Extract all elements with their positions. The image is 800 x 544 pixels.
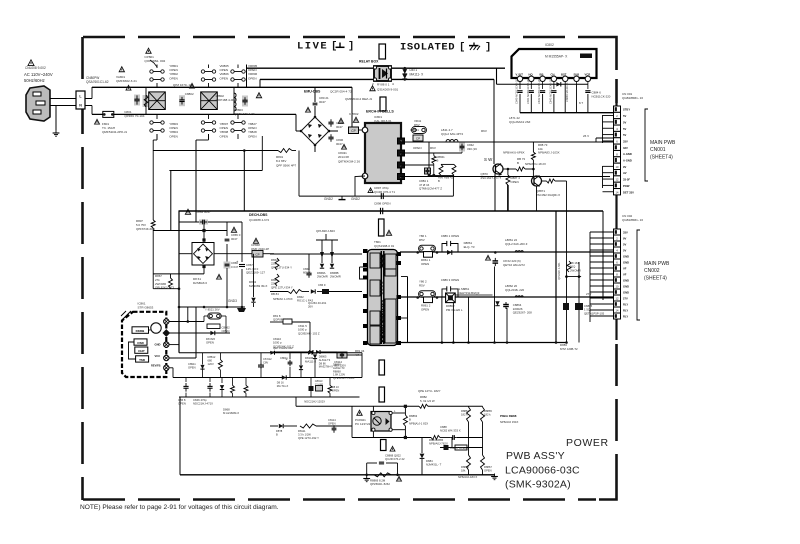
svg-text:GND: GND — [623, 291, 629, 295]
svg-text:D871: D871 — [410, 68, 418, 72]
svg-text:2SC392 RAQR/-X: 2SC392 RAQR/-X — [536, 193, 560, 197]
svg-text:5V: 5V — [623, 133, 626, 137]
svg-text:OPEN: OPEN — [511, 180, 519, 184]
svg-text:QAL 0016 01: QAL 0016 01 — [374, 119, 392, 123]
svg-text:(SHEET4): (SHEET4) — [650, 154, 673, 160]
svg-text:5. 6k 1/2 W: 5. 6k 1/2 W — [420, 399, 435, 403]
svg-text:P8BA RB88: P8BA RB88 — [500, 414, 517, 418]
svg-text:OPEN: OPEN — [248, 76, 257, 80]
svg-text:NOTE) Please refer to page 2-: NOTE) Please refer to page 2-91 for volt… — [80, 504, 279, 511]
svg-text:5V: 5V — [623, 114, 626, 118]
svg-text:C843 NCB13CK2-20: C843 NCB13CK2-20 — [548, 79, 552, 104]
svg-text:R8812: R8812 — [208, 355, 216, 359]
svg-text:AL812-T3: AL812-T3 — [319, 358, 331, 362]
svg-text:C8867 OPEN: C8867 OPEN — [450, 446, 467, 450]
svg-text:C8911: C8911 — [188, 362, 196, 366]
svg-text:2WOMR: 2WOMR — [317, 275, 328, 279]
svg-text:27V: 27V — [586, 292, 591, 296]
svg-text:AV: AV — [623, 171, 627, 175]
svg-text:QQL2018- 220: QQL2018- 220 — [505, 288, 525, 292]
svg-text:33-5F: 33-5F — [623, 178, 630, 182]
svg-text:QET16 HM-2272: QET16 HM-2272 — [503, 263, 525, 267]
svg-text:C842 NCB13CK2-20: C842 NCB13CK2-20 — [537, 79, 541, 104]
svg-text:N: N — [79, 104, 82, 108]
svg-text:CHP: CHP — [138, 349, 144, 353]
svg-text:QGB188M1- 16: QGB188M1- 16 — [622, 96, 643, 100]
svg-text:5V: 5V — [623, 243, 626, 247]
svg-text:IC802: IC802 — [545, 43, 554, 47]
svg-text:RLY: RLY — [623, 309, 628, 313]
svg-text:GND: GND — [623, 279, 629, 283]
svg-text:CP: CP — [255, 253, 259, 257]
svg-text:QC2R 054-4 72: QC2R 054-4 72 — [330, 89, 352, 93]
svg-text:LIVE: LIVE — [297, 41, 328, 53]
svg-text:3.3 k 1/2W: 3.3 k 1/2W — [298, 433, 311, 437]
svg-text:NPB(A)J-1 82X: NPB(A)J-1 82X — [409, 421, 428, 425]
svg-text:C8846 MA111-X: C8846 MA111-X — [565, 82, 569, 102]
svg-text:CP: CP — [351, 129, 355, 133]
svg-text:5V: 5V — [623, 120, 626, 124]
svg-text:RY88 0 1: RY88 0 1 — [377, 83, 390, 87]
svg-text:R8V RB8 42: R8V RB8 42 — [438, 176, 453, 180]
svg-text:CP: CP — [416, 137, 420, 141]
svg-text:D2SBA6 0: D2SBA6 0 — [193, 281, 207, 285]
svg-text:QPF 056K 4P7: QPF 056K 4P7 — [276, 163, 297, 167]
svg-text:OPEN: OPEN — [206, 341, 214, 345]
svg-text:C8 912: C8 912 — [263, 357, 272, 361]
svg-text:2WOMR: 2WOMR — [570, 268, 581, 272]
svg-text:R8868: R8868 — [333, 369, 341, 373]
svg-text:GND: GND — [623, 285, 629, 289]
svg-text:2SC1627 AY/-T: 2SC1627 AY/-T — [481, 176, 502, 180]
svg-text:DECH-DBS: DECH-DBS — [249, 213, 268, 217]
svg-text:OPEN: OPEN — [248, 134, 257, 138]
svg-text:M M1555AP- X: M M1555AP- X — [545, 55, 568, 59]
svg-text:D8 16: D8 16 — [277, 381, 284, 385]
svg-text:REV/FB: REV/FB — [151, 364, 161, 368]
svg-text:QEZ6267- 208: QEZ6267- 208 — [513, 311, 532, 315]
svg-text:8.T: 8.T — [579, 101, 583, 105]
svg-text:OSD: OSD — [137, 341, 144, 345]
svg-text:600 V: 600 V — [303, 271, 310, 275]
svg-text:Q31K009 9-001: Q31K009 9-001 — [377, 88, 399, 92]
svg-text:R5V: R5V — [419, 283, 425, 287]
svg-text:QPE12TU-334 Y: QPE12TU-334 Y — [271, 265, 292, 269]
svg-text:QQS1998-0 01: QQS1998-0 01 — [374, 244, 395, 248]
svg-text:OPEN: OPEN — [178, 402, 186, 406]
svg-text:9V: 9V — [623, 165, 626, 169]
svg-text:QETN1P5P-105: QETN1P5P-105 — [584, 311, 605, 315]
svg-text:0047: 0047 — [231, 237, 238, 241]
svg-text:]: ] — [348, 41, 354, 53]
svg-text:A-GND: A-GND — [623, 159, 632, 163]
svg-text:M A2160M-X: M A2160M-X — [223, 411, 239, 415]
svg-text:C8913: C8913 — [315, 379, 323, 383]
svg-text:B: B — [437, 159, 439, 163]
svg-text:VF: VF — [623, 267, 627, 271]
svg-text:50Hz/60Hz: 50Hz/60Hz — [24, 78, 45, 83]
svg-text:QPL82KJ-823: QPL82KJ-823 — [316, 229, 335, 233]
svg-text:R8 10: R8 10 — [332, 385, 339, 389]
svg-text:OPEN: OPEN — [332, 388, 339, 392]
svg-text:QC2R 076-2 22: QC2R 076-2 22 — [385, 457, 405, 461]
svg-text:12 66P: 12 66P — [315, 382, 323, 386]
svg-text:ISOLATED: ISOLATED — [400, 42, 455, 54]
svg-text:R8111: R8111 — [298, 429, 306, 433]
svg-text:B: B — [517, 161, 519, 165]
svg-text:C840 NCB13CK2-20: C840 NCB13CK2-20 — [515, 79, 519, 104]
svg-text:OPEN: OPEN — [421, 307, 429, 311]
svg-text:33V: 33V — [623, 146, 628, 150]
svg-text:D8865: D8865 — [319, 355, 327, 359]
svg-text:CNL008 9-002: CNL008 9-002 — [25, 66, 46, 70]
svg-text:QQL2 6AV-4P72: QQL2 6AV-4P72 — [441, 132, 463, 136]
svg-text:PWB ASS'Y: PWB ASS'Y — [506, 450, 565, 462]
svg-text:R8868: R8868 — [461, 465, 469, 469]
svg-text:GND: GND — [155, 343, 161, 347]
svg-text:QQL26AK2 26Z: QQL26AK2 26Z — [509, 120, 531, 124]
svg-text:GND2: GND2 — [324, 197, 333, 201]
svg-text:[: [ — [459, 42, 465, 54]
svg-text:QC2R88 4-672: QC2R88 4-672 — [249, 218, 270, 222]
svg-text:QPE 12TU-334 Y: QPE 12TU-334 Y — [271, 285, 293, 289]
svg-text:QPL82KJ- 273: QPL82KJ- 273 — [155, 286, 174, 290]
svg-text:CEHT1W-BI2Q3: CEHT1W-BI2Q3 — [458, 291, 480, 295]
svg-text:C8802: C8802 — [185, 92, 194, 96]
svg-text:26V: 26V — [308, 305, 313, 309]
svg-text:POWER: POWER — [566, 437, 609, 449]
svg-text:RLY: RLY — [623, 315, 628, 319]
svg-text:0047: 0047 — [319, 100, 326, 104]
svg-text:RELAY BOX: RELAY BOX — [359, 60, 379, 64]
svg-text:D8 86: D8 86 — [319, 361, 326, 365]
svg-text:AL812-T3: AL812-T3 — [333, 366, 345, 370]
svg-text:GND3: GND3 — [228, 299, 237, 303]
svg-text:OPEN: OPEN — [169, 76, 178, 80]
svg-text:2WOMR: 2WOMR — [330, 275, 341, 279]
svg-text:VF: VF — [623, 273, 627, 277]
svg-text:MA.T11-X: MA.T11-X — [277, 384, 289, 388]
svg-text:C886 1 OPEN: C886 1 OPEN — [441, 234, 459, 238]
svg-text:C86 9: C86 9 — [318, 283, 326, 287]
svg-text:NPB/A0 J-470X: NPB/A0 J-470X — [273, 297, 293, 301]
svg-text:NDC21HJ-1202X: NDC21HJ-1202X — [304, 400, 325, 404]
svg-text:R8865: R8865 — [484, 409, 492, 413]
svg-text:C898 OPEN: C898 OPEN — [374, 202, 391, 206]
svg-text:33V: 33V — [623, 231, 628, 235]
svg-text:A-GND: A-GND — [623, 152, 632, 156]
svg-text:OPEN: OPEN — [188, 366, 196, 370]
svg-text:QMF8302-6 21: QMF8302-6 21 — [116, 79, 137, 83]
svg-text:VCC: VCC — [155, 354, 161, 358]
svg-text:QPZ6 670-4 70: QPZ6 670-4 70 — [234, 112, 255, 116]
svg-text:NP8/A0J 154X: NP8/A0J 154X — [500, 420, 518, 424]
svg-text:QPF674K-6P9: QPF674K-6P9 — [136, 227, 155, 231]
svg-text:0047: 0047 — [336, 125, 343, 129]
svg-text:C8611: C8611 — [280, 356, 288, 360]
svg-text:QGB188M1- 16: QGB188M1- 16 — [622, 218, 643, 222]
svg-text:QPE 12TU-332 Y: QPE 12TU-332 Y — [298, 436, 319, 440]
svg-text:0 047: 0 047 — [231, 265, 239, 269]
svg-text:QC892HK- 102 Z: QC892HK- 102 Z — [298, 331, 320, 335]
svg-text:GND: GND — [623, 255, 629, 259]
svg-text:27V: 27V — [623, 297, 628, 301]
svg-text:NDC21HJ-471X: NDC21HJ-471X — [193, 402, 213, 406]
svg-text:MAIN PWB: MAIN PWB — [650, 140, 676, 146]
svg-text:QTMN1CM-477 Z: QTMN1CM-477 Z — [419, 187, 442, 191]
svg-text:PM XG120 L: PM XG120 L — [446, 308, 463, 312]
svg-text:QOP188 4-002: QOP188 4-002 — [216, 98, 237, 102]
svg-text:R5V: R5V — [414, 123, 420, 127]
svg-text:680: 680 — [208, 359, 213, 363]
svg-text:330 (16: 330 (16 — [467, 147, 477, 151]
svg-text:CP802: CP802 — [349, 112, 359, 116]
svg-text:MA3069 IM-X: MA3069 IM-X — [249, 284, 267, 288]
svg-text:OPEN: OPEN — [413, 146, 422, 150]
svg-text:OPEN: OPEN — [222, 329, 230, 333]
svg-text:OPEN: OPEN — [220, 76, 229, 80]
svg-text:LCA90066-03C: LCA90066-03C — [505, 465, 580, 477]
svg-text:5V: 5V — [623, 249, 626, 253]
svg-text:S W: S W — [484, 157, 493, 162]
svg-text:STBY: STBY — [623, 108, 630, 112]
svg-text:POW: POW — [623, 184, 630, 188]
svg-text:OPEN: OPEN — [484, 469, 492, 473]
svg-text:R6V: R6V — [481, 129, 487, 133]
svg-text:]: ] — [485, 42, 491, 54]
svg-text:NJM431L- T: NJM431L- T — [426, 463, 442, 467]
svg-text:QSA7601C1-62: QSA7601C1-62 — [86, 80, 109, 84]
svg-text:GND2: GND2 — [351, 197, 360, 201]
svg-text:CN002: CN002 — [644, 268, 660, 274]
svg-text:CP841: CP841 — [410, 128, 419, 132]
svg-text:QEZ2169- 127: QEZ2169- 127 — [246, 271, 265, 275]
svg-text:120V: 120V — [208, 362, 214, 366]
svg-text:NP8/AKU-18 2X: NP8/AKU-18 2X — [525, 162, 546, 166]
svg-text:QPZ6946- 8262: QPZ6946- 8262 — [370, 482, 390, 486]
svg-text:CN001: CN001 — [650, 147, 666, 153]
svg-text:QET-N1HN-102: QET-N1HN-102 — [273, 346, 293, 350]
svg-text:182 k: 182 k — [461, 413, 468, 417]
svg-text:(SMK-9302A): (SMK-9302A) — [505, 479, 571, 491]
svg-text:OPEN: OPEN — [328, 422, 336, 426]
svg-text:STR G8653: STR G8653 — [138, 306, 154, 310]
svg-text:4.7: 4.7 — [355, 353, 359, 357]
svg-text:MA3276H-X: MA3276H-X — [319, 365, 333, 369]
svg-text:OPEN: OPEN — [220, 134, 229, 138]
svg-text:MA111- X: MA111- X — [410, 72, 425, 76]
svg-text:QQL2 6AK-200 Z: QQL2 6AK-200 Z — [505, 242, 528, 246]
svg-text:DET 33V: DET 33V — [623, 190, 634, 194]
svg-text:0047: 0047 — [336, 142, 343, 146]
svg-text:R8864: R8864 — [461, 409, 469, 413]
svg-text:18k: 18k — [461, 469, 466, 473]
svg-text:NPB/AKU-6P6X: NPB/AKU-6P6X — [503, 151, 525, 155]
svg-text:MTZ J20B-T2: MTZ J20B-T2 — [560, 347, 578, 351]
svg-text:9V: 9V — [623, 237, 626, 241]
svg-text:(SHEET4): (SHEET4) — [644, 275, 667, 281]
svg-text:EMU-DBS: EMU-DBS — [304, 89, 321, 93]
svg-text:C8V: C8V — [263, 361, 268, 365]
svg-text:C841 NCB13CK2-20: C841 NCB13CK2-20 — [526, 79, 530, 104]
svg-text:NP8/A0J-183 X: NP8/A0J-183 X — [458, 475, 477, 479]
svg-text:RLY: RLY — [623, 303, 628, 307]
svg-text:D8?8: D8?8 — [276, 429, 283, 433]
svg-text:NP8/A83 J-103X: NP8/A83 J-103X — [538, 151, 560, 155]
svg-text:QMP2043-2 REZ-J1: QMP2043-2 REZ-J1 — [345, 97, 373, 101]
svg-text:Q8TMXGM-2 26: Q8TMXGM-2 26 — [338, 159, 360, 163]
svg-text:DKDB: DKDB — [136, 329, 145, 333]
svg-text:QPE18121 J-1820: QPE18121 J-1820 — [333, 376, 355, 380]
svg-text:C8114: C8114 — [328, 418, 336, 422]
svg-text:D8868: D8868 — [333, 363, 341, 367]
svg-text:AC 110V~240V: AC 110V~240V — [24, 72, 53, 77]
svg-text:5V: 5V — [623, 127, 626, 131]
svg-text:NC82 WK-333 X: NC82 WK-333 X — [440, 429, 461, 433]
svg-text:QPE 12TU- 182Y: QPE 12TU- 182Y — [418, 389, 441, 393]
svg-text:OPEN: OPEN — [421, 262, 429, 266]
svg-text:OPEN: OPEN — [169, 134, 178, 138]
svg-text:QC2R 076-4 71: QC2R 076-4 71 — [374, 190, 395, 194]
svg-text:33V: 33V — [623, 139, 628, 143]
svg-text:C886 3 OPEN: C886 3 OPEN — [441, 278, 459, 282]
svg-text:B: B — [438, 179, 440, 183]
svg-text:QOP1884- 002: QOP1884- 002 — [144, 59, 165, 63]
svg-text:MAIN PWB: MAIN PWB — [644, 261, 670, 267]
svg-text:26 V: 26 V — [583, 134, 589, 138]
svg-text:QPL82K J-561: QPL82K J-561 — [557, 262, 561, 280]
svg-text:Y 8521 26V: Y 8521 26V — [205, 308, 220, 312]
svg-text:R8867: R8867 — [484, 465, 492, 469]
svg-text:PC 123Y22: PC 123Y22 — [355, 422, 371, 426]
svg-text:B: B — [276, 432, 278, 436]
svg-text:[: [ — [331, 41, 337, 53]
svg-text:1.8K 120V: 1.8K 120V — [333, 373, 345, 377]
svg-text:R6V: R6V — [430, 146, 436, 150]
svg-text:QPZ66 70-104: QPZ66 70-104 — [124, 114, 145, 118]
svg-text:ELQ- T3: ELQ- T3 — [464, 245, 475, 249]
svg-text:RB 84: RB 84 — [271, 292, 279, 296]
svg-text:QMF51D2-2P8-J1: QMF51D2-2P8-J1 — [102, 130, 127, 134]
svg-text:R5V: R5V — [419, 238, 425, 242]
svg-text:TSD: TSD — [139, 358, 146, 362]
svg-text:ERCH-IR BELLS: ERCH-IR BELLS — [366, 110, 394, 114]
svg-text:GND: GND — [623, 261, 629, 265]
svg-text:NCB11CK-220: NCB11CK-220 — [592, 94, 611, 98]
svg-text:182 k: 182 k — [484, 413, 491, 417]
